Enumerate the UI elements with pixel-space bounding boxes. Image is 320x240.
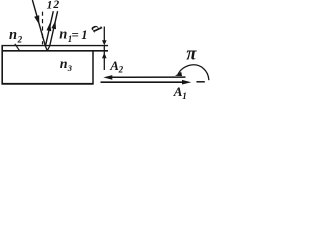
label n2: [9, 27, 23, 45]
film bottom surface (substrate top): [2, 50, 109, 52]
phase shift arc arrowhead: [175, 72, 182, 76]
svg-text:1: 1: [81, 28, 87, 42]
substrate left edge: [1, 45, 3, 85]
wave A1 arrow: [101, 80, 192, 85]
svg-text:1: 1: [47, 0, 53, 12]
svg-text:n: n: [59, 26, 67, 42]
label n1=1: [59, 26, 87, 44]
label A1: [173, 84, 187, 101]
label A2: [109, 58, 123, 74]
ray reflected from film bottom: [47, 46, 49, 51]
substrate bottom edge: [2, 83, 94, 85]
svg-text:3: 3: [67, 63, 73, 73]
svg-text:2: 2: [118, 65, 124, 75]
wave A1 dashed continuation: [196, 81, 204, 83]
svg-text:π: π: [186, 45, 197, 65]
ray 2: [50, 11, 58, 46]
svg-text:=: =: [72, 27, 79, 42]
svg-text:2: 2: [52, 0, 59, 11]
thickness dimension lower arrow: [102, 53, 107, 70]
svg-text:1: 1: [182, 91, 187, 101]
refracted ray inside film: [45, 46, 47, 51]
ray 1 arrowhead: [47, 23, 52, 32]
phase shift arc: [178, 65, 209, 80]
film top surface: [2, 45, 109, 47]
ray 2 arrowhead: [51, 21, 56, 30]
normal (dashed): [42, 12, 44, 45]
thickness dimension upper arrow: [102, 27, 107, 58]
svg-text:n: n: [60, 57, 68, 72]
incident ray arrowhead: [34, 15, 39, 24]
svg-text:n: n: [9, 27, 17, 43]
incident ray: [32, 0, 45, 46]
substrate right edge: [92, 50, 94, 85]
ray 1: [45, 11, 53, 46]
svg-text:2: 2: [17, 34, 23, 44]
label n3: [60, 57, 73, 73]
wave A2 arrow: [103, 75, 185, 80]
n2 leader line: [15, 44, 20, 52]
